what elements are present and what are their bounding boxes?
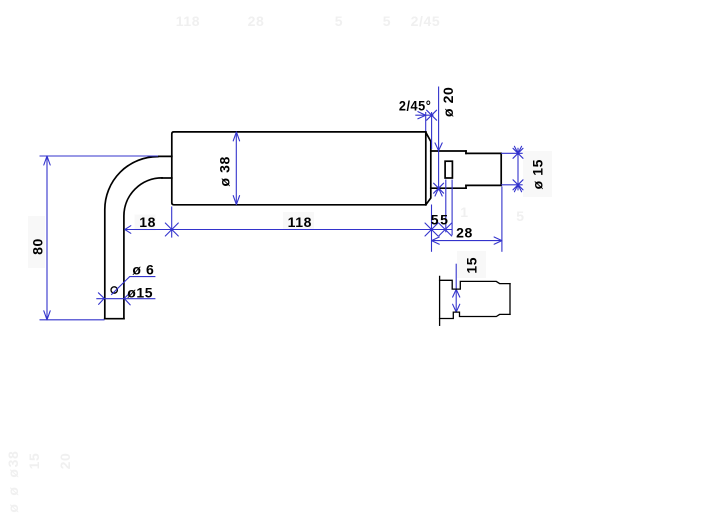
svg-text:118: 118	[176, 13, 200, 29]
dim 80 vertical line	[46, 156, 48, 320]
dimension texts	[30, 87, 546, 301]
step to o15	[465, 151, 467, 188]
chamfer extension lines	[426, 112, 432, 149]
svg-text:15: 15	[463, 257, 479, 274]
svg-text:ø15: ø15	[127, 284, 153, 300]
muffler body	[172, 132, 426, 205]
svg-text:ø: ø	[5, 468, 21, 477]
o15 end section	[466, 153, 501, 185]
o15 right ext lines	[501, 153, 523, 185]
svg-text:2/45: 2/45	[411, 13, 441, 29]
svg-text:118: 118	[288, 214, 312, 230]
svg-text:5: 5	[383, 13, 391, 29]
o15 pipe arrow right (pointing left)	[124, 293, 130, 305]
ghost text row top	[5, 13, 525, 513]
end cap chamfer	[426, 132, 431, 205]
o6 leader	[111, 277, 155, 295]
o15 right dim line	[517, 148, 519, 191]
detail right face	[509, 284, 511, 315]
svg-text:5: 5	[440, 212, 448, 228]
ext below body end	[431, 205, 433, 252]
cross at 445.2	[439, 223, 452, 236]
ext body left edge	[171, 207, 173, 238]
cross at 431.5	[425, 223, 438, 236]
elbow outer arc	[105, 157, 158, 319]
svg-text:ø: ø	[5, 486, 21, 495]
ext shaft end	[501, 187, 503, 252]
arrow 80 top	[44, 156, 50, 165]
chamfer dim line 2/45	[415, 114, 433, 116]
arrows and crosses	[44, 110, 523, 320]
svg-text:5: 5	[516, 208, 524, 224]
svg-text:ø: ø	[5, 503, 21, 512]
o15 right bottom mark	[514, 185, 521, 192]
detail top outline with groove	[440, 280, 510, 289]
ext slot right	[451, 180, 453, 236]
detail left face	[439, 276, 441, 325]
svg-text:5: 5	[335, 13, 343, 29]
arrow 80 bottom	[44, 311, 50, 320]
dim 80 bottom extension	[40, 319, 105, 321]
svg-text:28: 28	[456, 225, 473, 241]
dim chain line 18 / 118 / 5 / 5	[125, 229, 453, 231]
svg-text:38: 38	[5, 451, 21, 468]
svg-text:ø 15: ø 15	[530, 159, 546, 189]
cross at 171.8	[165, 223, 178, 236]
arrow 18 left	[125, 226, 131, 234]
28 arrows	[432, 237, 440, 244]
faint label background boxes	[28, 151, 552, 278]
svg-text:20: 20	[57, 453, 73, 470]
o38 arrows	[233, 132, 239, 141]
outlet stub o20	[431, 151, 466, 188]
detail 15 arrows	[453, 289, 460, 297]
inlet pipe top line	[157, 155, 172, 157]
o15 pipe arrow left (pointing right)	[98, 293, 104, 305]
inlet pipe bottom line	[162, 177, 172, 179]
slot on stub	[445, 161, 452, 178]
elbow inner arc	[124, 178, 162, 319]
o15 right top mark	[514, 146, 521, 153]
svg-text:ø 20: ø 20	[440, 87, 456, 117]
svg-text:ø 6: ø 6	[132, 261, 154, 277]
chamfer arrow + cross	[418, 112, 426, 119]
o20 bottom arrow up + cross	[435, 188, 442, 196]
svg-text:28: 28	[248, 13, 265, 29]
dim 28 line	[432, 240, 502, 242]
pipe end	[105, 318, 124, 320]
mounting hole o6	[111, 287, 117, 293]
svg-text:80: 80	[30, 238, 46, 255]
svg-text:1: 1	[460, 204, 468, 220]
svg-text:18: 18	[139, 214, 156, 230]
ext slot left	[445, 180, 447, 233]
detail bottom outline with groove	[440, 312, 510, 318]
o15 pipe dim line	[96, 298, 155, 300]
body end face	[425, 132, 427, 205]
svg-text:5: 5	[431, 212, 439, 228]
svg-text:15: 15	[26, 453, 42, 470]
detail dim 15 line	[455, 264, 457, 311]
o20 dim line	[438, 87, 440, 191]
svg-text:ø 38: ø 38	[217, 156, 233, 186]
dim 80 top extension	[40, 155, 159, 157]
o38 dim line	[235, 132, 237, 205]
svg-text:2/45°: 2/45°	[399, 97, 432, 113]
o20 arrow top (pointing down)	[435, 143, 442, 151]
